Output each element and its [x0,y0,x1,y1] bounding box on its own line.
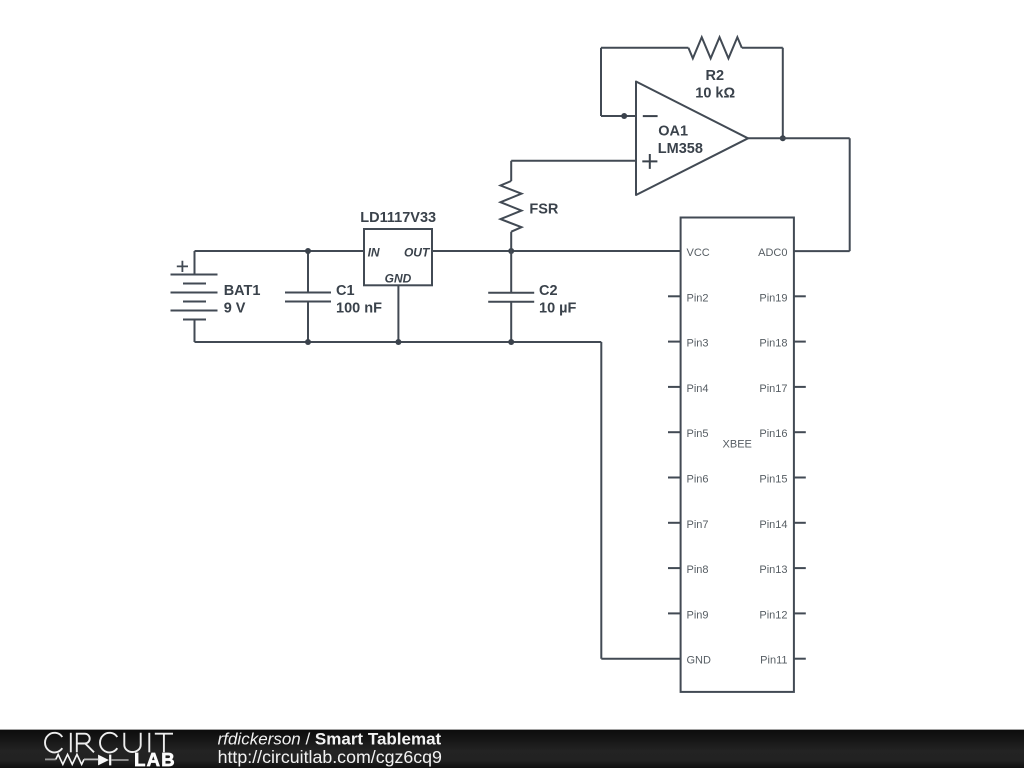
wire FSR to op-amp non-inverting input [511,160,636,162]
pin stub Pin7 [668,522,681,524]
wire 9V rail to regulator IN [195,250,365,252]
svg-text:Pin13: Pin13 [759,564,787,576]
svg-text:GND: GND [687,655,712,667]
wire into XBEE GND pin [601,658,680,660]
wire inverting input [601,115,636,117]
wire regulator OUT 3.3V rail to XBEE VCC [432,250,681,252]
svg-text:LM358: LM358 [658,141,703,157]
svg-text:9 V: 9 V [224,301,246,317]
voltage regulator LD1117V33 body [364,229,432,285]
svg-text:Pin17: Pin17 [759,383,787,395]
pin stub Pin19 [794,295,806,297]
svg-text:10 kΩ: 10 kΩ [695,86,735,102]
logo CIRCUIT letters [45,733,173,753]
node junction C2 bottom [508,339,514,345]
svg-text:R2: R2 [706,68,725,84]
svg-text:VCC: VCC [687,247,710,259]
svg-text:LAB: LAB [134,749,176,768]
chip XBEE body [681,218,794,692]
svg-text:Pin8: Pin8 [687,564,709,576]
pin stub Pin6 [668,477,681,479]
wire regulator GND lead [397,285,399,342]
node junction inverting input [621,113,627,119]
pin stub Pin9 [668,612,681,614]
wire op-amp output [748,137,850,139]
svg-text:Pin4: Pin4 [687,383,709,395]
op-amp OA1 [636,82,748,196]
svg-text:http://circuitlab.com/cgz6cq9: http://circuitlab.com/cgz6cq9 [218,747,442,767]
wire feedback right vertical [782,48,784,139]
pin stub Pin3 [668,341,681,343]
node junction C1 top [305,248,311,254]
wire battery negative lead [194,320,196,343]
wire feedback left vertical [600,48,602,116]
svg-text:Pin5: Pin5 [687,428,709,440]
wire feedback top right [742,47,783,49]
resistor R2 [688,37,741,58]
svg-text:Pin6: Pin6 [687,474,709,486]
pin stub Pin17 [794,386,806,388]
capacitor C1 [285,251,331,342]
pin stub Pin5 [668,431,681,433]
footer bar [0,730,1024,768]
pin stub Pin12 [794,612,806,614]
logo LAB text [134,749,176,768]
svg-text:10 µF: 10 µF [539,300,577,316]
wire battery positive lead [194,251,196,275]
svg-text:OA1: OA1 [658,124,688,140]
pin stub Pin11 [794,658,806,660]
wire output down to ADC0 level [849,138,851,251]
pin stub Pin13 [794,567,806,569]
battery BAT1 [171,261,218,320]
pin stub Pin15 [794,477,806,479]
svg-text:Pin9: Pin9 [687,609,709,621]
svg-text:FSR: FSR [529,202,559,218]
svg-text:XBEE: XBEE [723,439,752,451]
svg-text:Pin7: Pin7 [687,519,709,531]
logo diode symbol [98,755,129,766]
wire ground rail [195,341,602,343]
pin stub Pin14 [794,522,806,524]
capacitor C2 [488,251,534,342]
svg-text:BAT1: BAT1 [224,283,261,299]
wire feedback top left [601,47,688,49]
node junction C1 bottom [305,339,311,345]
svg-text:C1: C1 [336,283,355,299]
footer url text [218,747,442,767]
svg-text:100 nF: 100 nF [336,300,382,316]
pin stub Pin8 [668,567,681,569]
svg-text:GND: GND [385,272,412,286]
footer bar top edge [0,729,1024,730]
wire into XBEE ADC0 pin [794,250,850,252]
svg-text:rfdickerson / Smart Tablemat: rfdickerson / Smart Tablemat [218,730,442,749]
footer title text [218,730,442,749]
svg-text:Pin19: Pin19 [759,292,787,304]
node junction regulator GND at ground rail [395,339,401,345]
logo resistor symbol [45,754,98,764]
svg-text:Pin11: Pin11 [760,655,787,667]
node junction op-amp output [780,135,786,141]
svg-text:OUT: OUT [404,245,431,259]
svg-text:Pin15: Pin15 [759,474,787,486]
svg-text:Pin12: Pin12 [759,609,787,621]
pin stub Pin18 [794,341,806,343]
svg-text:IN: IN [368,245,380,259]
svg-text:C2: C2 [539,283,558,299]
svg-text:Pin16: Pin16 [759,428,787,440]
svg-text:ADC0: ADC0 [758,247,787,259]
resistor FSR [501,161,522,251]
node junction FSR and C2 on 3.3V rail [508,248,514,254]
pin stub Pin4 [668,386,681,388]
pin stub Pin16 [794,431,806,433]
svg-text:Pin3: Pin3 [687,338,709,350]
svg-text:LD1117V33: LD1117V33 [360,210,436,226]
pin stub Pin2 [668,295,681,297]
wire ground rail down leg [600,342,602,659]
svg-text:Pin14: Pin14 [759,519,787,531]
svg-text:Pin2: Pin2 [687,292,709,304]
svg-text:Pin18: Pin18 [759,338,787,350]
